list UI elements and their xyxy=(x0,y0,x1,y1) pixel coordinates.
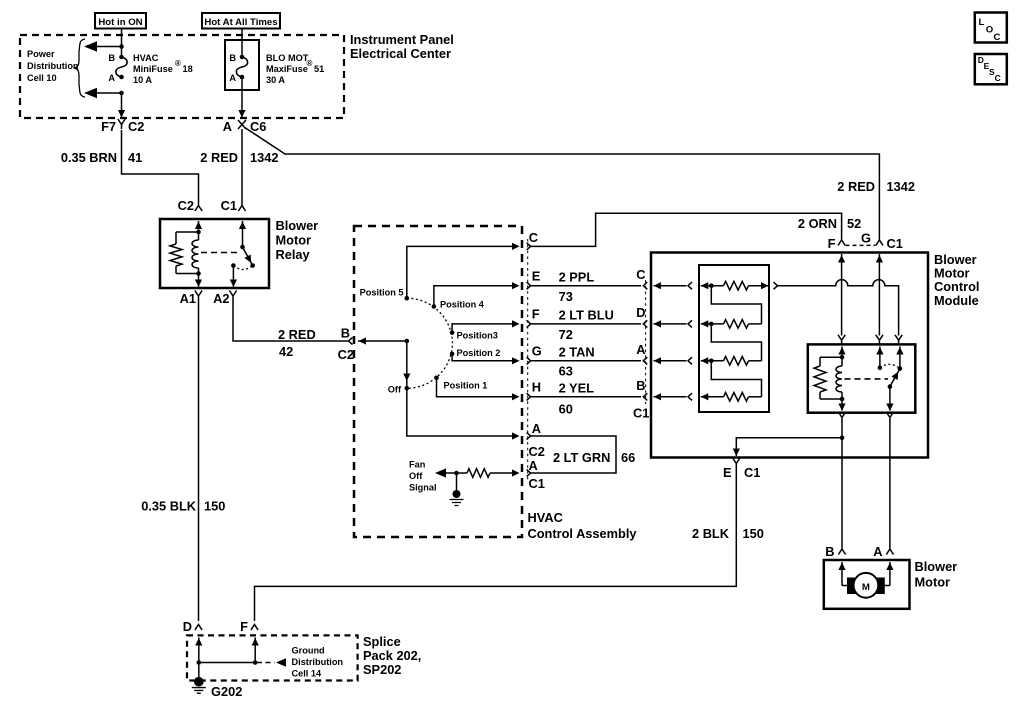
resistor relay damping xyxy=(170,244,182,266)
resistor pack box xyxy=(699,265,769,412)
connector A2 at relay xyxy=(229,291,236,301)
wire splice F internal xyxy=(254,638,256,663)
svg-text:G: G xyxy=(532,344,542,359)
svg-text:A1: A1 xyxy=(180,291,196,306)
internal switch dotted travel arc xyxy=(880,364,900,368)
svg-text:F7: F7 xyxy=(101,119,116,134)
wire 2 LT BLU 72 from F to module D xyxy=(531,323,641,325)
connector B at blower motor xyxy=(838,549,845,555)
wire 2 PPL 73 from E to module C xyxy=(531,285,641,287)
svg-text:Ground: Ground xyxy=(292,646,325,656)
terminal A C2 at HVAC xyxy=(527,432,531,439)
svg-text:A: A xyxy=(529,458,538,473)
svg-text:Off: Off xyxy=(388,385,402,395)
resistor R3 xyxy=(701,360,724,362)
wire Position 2 to terminal G xyxy=(452,354,515,361)
resistor R4 xyxy=(701,396,724,398)
svg-text:C2: C2 xyxy=(338,347,354,362)
wire 0.35 BLK 150 from A1 to splice D xyxy=(198,301,200,622)
svg-text:Distribution: Distribution xyxy=(27,61,79,71)
wire from Hot At All Times to fuse xyxy=(241,29,243,58)
svg-text:0.35 BLK: 0.35 BLK xyxy=(141,499,197,514)
motor right brush xyxy=(876,578,885,595)
svg-text:Cell 14: Cell 14 xyxy=(292,669,323,679)
svg-text:Electrical Center: Electrical Center xyxy=(350,46,451,61)
internal switch arm xyxy=(890,369,900,387)
svg-text:B: B xyxy=(825,544,834,559)
node internal switch right contact xyxy=(898,366,903,371)
wire module to blower motor A xyxy=(889,422,891,549)
svg-text:L: L xyxy=(979,17,985,28)
node Hot At All Times box xyxy=(202,13,280,29)
svg-text:A: A xyxy=(223,119,232,134)
wire relay resistor bottom xyxy=(175,266,177,274)
resistor pack output arrow xyxy=(761,282,769,289)
wire splice bus xyxy=(199,662,255,664)
wire B into motor xyxy=(841,562,843,586)
connector C2 at relay xyxy=(195,206,202,212)
resistor R2 xyxy=(701,323,724,325)
svg-text:Pack 202,: Pack 202, xyxy=(363,648,421,663)
wire common down to Off xyxy=(406,341,408,390)
wire 2 LT GRN 66 loop xyxy=(531,436,616,473)
svg-text:150: 150 xyxy=(743,526,764,541)
wire Position 3 to terminal F xyxy=(452,324,515,333)
svg-text:G202: G202 xyxy=(211,684,242,699)
svg-text:E: E xyxy=(723,465,732,480)
node splice junction D xyxy=(197,660,202,665)
relay switch arm xyxy=(243,247,253,266)
connector D at splice xyxy=(195,625,202,631)
wire fuse down to connector A C6 xyxy=(241,77,243,117)
svg-text:Signal: Signal xyxy=(409,483,437,493)
terminal C at module xyxy=(643,282,647,289)
splice pack SP202 dashed box xyxy=(187,635,358,680)
svg-text:2 RED: 2 RED xyxy=(200,150,238,165)
svg-text:C2: C2 xyxy=(178,198,194,213)
svg-text:HVAC: HVAC xyxy=(133,53,159,63)
wire branch to power distribution lower xyxy=(97,92,122,94)
node Position 1 contact xyxy=(434,376,439,381)
svg-text:SP202: SP202 xyxy=(363,662,401,677)
wire F into module xyxy=(841,254,843,336)
node relay switch arm tip xyxy=(250,263,255,268)
serpentine link R2-R3 xyxy=(711,324,761,361)
svg-text:Position 2: Position 2 xyxy=(457,348,501,358)
svg-text:2 LT GRN: 2 LT GRN xyxy=(553,450,610,465)
node internal coil bottom junction xyxy=(840,397,845,402)
node relay switch fixed contact xyxy=(240,245,245,250)
coil internal relay xyxy=(841,357,843,366)
svg-text:Position 4: Position 4 xyxy=(440,300,485,310)
wire 0.35 BRN 41 from F7 to relay C2 xyxy=(122,130,199,205)
terminal G at HVAC xyxy=(527,357,531,364)
LOC reference box xyxy=(975,13,1007,43)
svg-text:D: D xyxy=(183,619,192,634)
svg-text:Module: Module xyxy=(934,293,979,308)
svg-text:Instrument Panel: Instrument Panel xyxy=(350,32,454,47)
svg-text:B: B xyxy=(229,53,236,63)
wire fuse F7 down to connector xyxy=(121,93,123,117)
svg-text:2 PPL: 2 PPL xyxy=(559,270,595,285)
svg-text:Position 5: Position 5 xyxy=(360,288,404,298)
node relay coil top junction xyxy=(196,230,201,235)
svg-text:0.35 BRN: 0.35 BRN xyxy=(61,150,117,165)
relay K1 Blower Motor Relay box xyxy=(160,219,269,288)
svg-text:73: 73 xyxy=(559,289,573,304)
wire 2 RED 42 from A2 to HVAC B xyxy=(233,301,348,342)
svg-text:A: A xyxy=(873,544,882,559)
motor M1 Blower Motor box xyxy=(824,560,910,609)
svg-text:C: C xyxy=(994,32,1001,43)
svg-text:72: 72 xyxy=(559,327,573,342)
terminal A at module xyxy=(643,357,647,364)
wire splice D internal xyxy=(198,638,200,663)
svg-text:Blower: Blower xyxy=(276,218,319,233)
wire ground return to E xyxy=(736,438,842,449)
svg-text:2 LT BLU: 2 LT BLU xyxy=(559,308,614,323)
wire fan off signal xyxy=(446,472,467,474)
svg-text:MaxiFuse: MaxiFuse xyxy=(266,64,308,74)
svg-text:Hot in ON: Hot in ON xyxy=(98,17,142,28)
motor armature circle xyxy=(854,573,879,598)
svg-text:F: F xyxy=(240,619,248,634)
svg-text:C1: C1 xyxy=(887,236,903,251)
terminal E at HVAC xyxy=(527,282,531,289)
node fan off ground junction xyxy=(454,471,459,476)
svg-text:51: 51 xyxy=(314,64,324,74)
svg-text:1342: 1342 xyxy=(250,150,278,165)
svg-text:42: 42 xyxy=(279,344,293,359)
svg-text:30 A: 30 A xyxy=(266,75,285,85)
wire relay C1 to switch contact xyxy=(242,221,244,247)
HVAC Control Assembly dashed box xyxy=(354,226,522,537)
svg-text:63: 63 xyxy=(559,364,573,379)
wire common into switch xyxy=(358,340,407,342)
svg-text:Off: Off xyxy=(409,471,423,481)
svg-text:150: 150 xyxy=(204,499,225,514)
wire resistor output with hops to relay xyxy=(778,280,899,336)
node Position 4 contact xyxy=(432,304,437,309)
wire to relay resistor top xyxy=(176,231,199,233)
connector A C6 xyxy=(238,120,246,129)
svg-text:B: B xyxy=(341,326,350,341)
connector C1 at relay xyxy=(238,206,245,212)
wire module input row 2 xyxy=(654,323,687,325)
wire resistor output to internal switch contact xyxy=(899,347,901,369)
svg-text:MiniFuse: MiniFuse xyxy=(133,64,173,74)
wire module input row 4 xyxy=(654,396,687,398)
svg-text:A: A xyxy=(636,342,645,357)
svg-text:66: 66 xyxy=(621,450,635,465)
brace for power distribution xyxy=(74,39,85,97)
svg-text:Control Assembly: Control Assembly xyxy=(528,526,638,541)
fuse BLO MOT MaxiFuse element xyxy=(236,57,247,77)
terminal D at module xyxy=(643,320,647,327)
svg-text:2 RED: 2 RED xyxy=(837,179,875,194)
svg-text:Cell 10: Cell 10 xyxy=(27,73,57,83)
wire 2 RED 1342 from C6 to relay C1 xyxy=(241,129,243,205)
wire from Hot in ON to fuse F7 xyxy=(121,29,123,58)
wire 2 TAN 63 from G to module A xyxy=(531,360,641,362)
svg-text:Splice: Splice xyxy=(363,634,401,649)
connector B C2 at HVAC xyxy=(349,337,353,344)
node switch common xyxy=(405,339,410,344)
svg-text:Fan: Fan xyxy=(409,460,426,470)
svg-text:C2: C2 xyxy=(128,119,144,134)
svg-text:D: D xyxy=(636,305,645,320)
serpentine link R3-R4 xyxy=(711,361,761,397)
svg-text:1342: 1342 xyxy=(887,179,915,194)
terminal E C1 at module bottom xyxy=(733,458,740,468)
wire to internal resistor xyxy=(820,356,842,358)
wire 2 BLK 150 from module E to splice F xyxy=(255,468,737,621)
wire Position 5 to terminal C xyxy=(407,246,516,298)
fan off signal resistor xyxy=(490,472,516,474)
connector chevrons above internal relay xyxy=(838,335,845,345)
svg-text:2 RED: 2 RED xyxy=(278,327,316,342)
node internal switch common xyxy=(888,384,893,389)
wire Position 4 to terminal E xyxy=(434,286,516,307)
connector F7 C2 xyxy=(118,119,125,129)
svg-text:BLO MOT: BLO MOT xyxy=(266,53,309,63)
wire coil bottom to motor B output xyxy=(841,399,843,411)
wire internal switch common to motor A output xyxy=(889,387,891,411)
terminal G C1 at module top xyxy=(876,240,883,246)
motor left brush xyxy=(847,578,856,595)
terminal F at module top xyxy=(838,240,845,246)
svg-text:Relay: Relay xyxy=(276,247,311,262)
wire G into module xyxy=(878,254,880,336)
svg-text:2 BLK: 2 BLK xyxy=(692,526,730,541)
svg-text:H: H xyxy=(532,380,541,395)
fan switch dotted arc xyxy=(407,298,453,388)
svg-text:Hot At All Times: Hot At All Times xyxy=(204,17,277,28)
svg-text:Blower: Blower xyxy=(915,559,958,574)
node internal coil top junction xyxy=(840,355,845,360)
connector C1 dashed line at module top xyxy=(846,244,876,246)
svg-text:B: B xyxy=(108,53,115,63)
svg-text:C2: C2 xyxy=(529,444,545,459)
svg-text:Position 1: Position 1 xyxy=(444,381,488,391)
svg-text:C: C xyxy=(636,267,645,282)
ground G202 xyxy=(194,677,204,687)
wire module input row 3 xyxy=(654,360,687,362)
resistor R1 xyxy=(701,285,724,287)
module U1 Blower Motor Control Module box xyxy=(651,253,928,458)
svg-text:60: 60 xyxy=(559,401,573,416)
wire F into internal relay xyxy=(841,347,843,358)
wire branch to power distribution upper xyxy=(97,46,122,48)
svg-text:A: A xyxy=(108,73,115,83)
connector A1 at relay xyxy=(195,291,202,301)
terminal C at HVAC xyxy=(527,243,531,250)
node Off contact xyxy=(405,386,410,391)
wire relay C2 internal xyxy=(198,221,200,232)
svg-text:Power: Power xyxy=(27,49,55,59)
relay coil-switch dashed link xyxy=(201,252,240,254)
svg-text:Distribution: Distribution xyxy=(292,657,344,667)
terminal F at HVAC xyxy=(527,320,531,327)
svg-text:2 ORN: 2 ORN xyxy=(798,216,837,231)
wire splice to ground xyxy=(198,663,200,679)
svg-text:C: C xyxy=(995,73,1001,83)
svg-text:B: B xyxy=(636,378,645,393)
connector face C1 dotted line at module left xyxy=(645,280,647,404)
svg-text:A2: A2 xyxy=(213,291,229,306)
wire A into motor xyxy=(889,562,891,586)
node splice junction F xyxy=(253,660,258,665)
svg-text:®: ® xyxy=(307,59,313,68)
connector face C2 dotted line at HVAC xyxy=(527,239,529,480)
svg-text:A: A xyxy=(229,73,236,83)
fuse BLO MOT MaxiFuse 51 30A box xyxy=(225,40,259,90)
svg-text:C1: C1 xyxy=(744,465,760,480)
instrument panel electrical center dashed box xyxy=(20,35,344,118)
wire dashed to ground distribution xyxy=(257,662,275,664)
wire Position 1 to terminal H xyxy=(437,378,516,397)
svg-text:Motor: Motor xyxy=(915,575,951,590)
svg-text:G: G xyxy=(861,231,871,246)
node branch junction lower xyxy=(119,91,124,96)
svg-text:C1: C1 xyxy=(529,476,545,491)
wire G to internal switch contact xyxy=(879,347,881,368)
wire 2 YEL 60 from H to module B xyxy=(531,396,641,398)
terminal A C1 at HVAC xyxy=(527,469,531,476)
node junction for ground return xyxy=(840,436,845,441)
svg-text:2 TAN: 2 TAN xyxy=(559,345,595,360)
node Position 2 contact xyxy=(450,352,455,357)
wire 2 ORN 52 from HVAC C to module F xyxy=(531,213,842,246)
connector F at splice xyxy=(251,625,258,631)
svg-text:C1: C1 xyxy=(221,198,237,213)
svg-text:A: A xyxy=(532,421,541,436)
svg-text:®: ® xyxy=(175,59,181,68)
node Position 3 contact xyxy=(450,330,455,335)
ground fan off signal xyxy=(456,473,458,492)
DESC reference box xyxy=(975,54,1007,84)
relay switch dotted travel arc xyxy=(233,266,252,270)
svg-text:F: F xyxy=(828,236,836,251)
fuse HVAC MiniFuse 18 10A xyxy=(116,57,127,77)
wire 2 RED 1342 branch to blower motor control module xyxy=(244,127,879,240)
svg-text:F: F xyxy=(532,307,540,322)
module internal relay box xyxy=(808,344,916,412)
node Position 5 contact xyxy=(405,296,410,301)
node branch junction upper xyxy=(119,44,124,49)
svg-text:41: 41 xyxy=(128,150,142,165)
coil relay winding xyxy=(198,232,200,240)
svg-text:52: 52 xyxy=(847,216,861,231)
terminal H at HVAC xyxy=(527,393,531,400)
node relay coil bottom junction xyxy=(196,271,201,276)
internal relay coil-switch dashed link xyxy=(845,378,889,380)
node Hot in ON box xyxy=(95,13,146,29)
connector chevrons below internal relay xyxy=(838,412,845,422)
wire module input row 1 xyxy=(654,285,687,287)
svg-text:C1: C1 xyxy=(633,406,649,421)
svg-text:18: 18 xyxy=(183,64,193,74)
svg-text:C: C xyxy=(529,230,538,245)
node relay switch output contact xyxy=(231,263,236,268)
wire module to blower motor B xyxy=(841,422,843,549)
node internal switch left contact xyxy=(878,366,883,371)
svg-text:Motor: Motor xyxy=(276,233,312,248)
serpentine link R1-R2 xyxy=(711,286,761,324)
svg-text:HVAC: HVAC xyxy=(528,510,563,525)
svg-text:M: M xyxy=(862,582,870,593)
svg-text:Position3: Position3 xyxy=(457,331,498,341)
connector A at blower motor xyxy=(886,549,893,555)
svg-text:2 YEL: 2 YEL xyxy=(559,381,595,396)
svg-text:10 A: 10 A xyxy=(133,75,152,85)
wire relay output to A2 xyxy=(232,266,234,287)
wire Off to terminal A xyxy=(407,388,516,436)
terminal B at module xyxy=(643,393,647,400)
wire relay coil to A1 xyxy=(198,274,200,287)
resistor internal relay xyxy=(814,366,826,392)
svg-text:E: E xyxy=(532,269,541,284)
